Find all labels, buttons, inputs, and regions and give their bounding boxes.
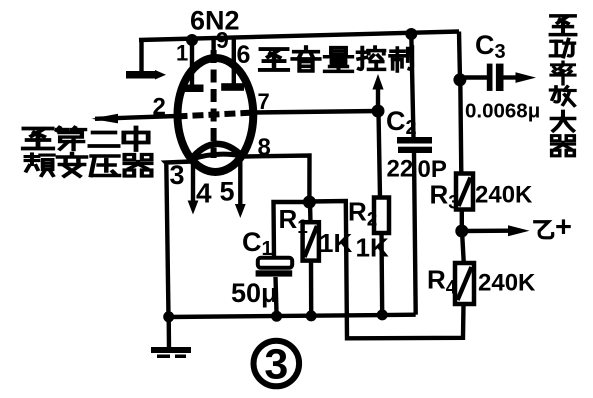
tube plate (right triode) [221,83,244,91]
ground symbol bottom-left [151,347,191,358]
svg-text:0.0068μ: 0.0068μ [465,100,540,123]
wire pin8 horizontal [243,156,310,203]
wire C3 node down to R3 [460,80,461,174]
svg-text:9: 9 [216,27,229,53]
wire bottom rail [169,315,416,317]
svg-text:1K: 1K [319,228,352,258]
wire C2 bottom lead to rail end [414,153,416,315]
wire heater pin4 lead [191,161,195,203]
svg-text:R1: R1 [279,204,309,238]
resistor R4 body [455,263,474,304]
wire C3 branch left lead [460,75,487,79]
wire heater pin5 lead [238,152,242,206]
wire C1 bottom to rail [276,277,277,316]
capacitor C2 plates [397,137,432,153]
wire cathode pin3 run to rail [166,162,191,318]
label: to 2nd IF transformer row2 (pin bian ya qi) [26,154,152,177]
tube shield dashed line pin9 [211,50,217,158]
chassis bar top-left [126,70,166,80]
svg-text:1: 1 [176,41,188,66]
svg-text:50μ: 50μ [231,278,278,308]
wire pin2 to left arrow [95,116,177,119]
svg-text:R4: R4 [427,265,457,299]
svg-text:240K: 240K [475,182,533,209]
svg-text:2: 2 [153,93,166,120]
wire node8 down to R1 [308,202,313,224]
svg-text:8: 8 [258,134,271,161]
wire rail to ground stem [166,317,171,348]
svg-text:5: 5 [220,177,235,207]
wire pin7 to C2 node [253,111,378,113]
wire C3 right lead to arrow [504,75,519,79]
arrowheads [92,72,537,236]
wire B+ arrow line [462,228,510,233]
svg-text:6N2: 6N2 [190,6,240,36]
svg-text:6: 6 [237,41,251,69]
wire node to R4 top [462,231,464,264]
svg-text:C3: C3 [475,30,506,63]
svg-text:3: 3 [264,341,288,389]
wire pin6 plate lead [232,39,236,85]
label: to volume control (zhi yin liang kong zhi) [260,47,412,71]
svg-text:+: + [555,212,572,244]
wire pin9 stub [211,39,215,55]
resistor R2 body [374,198,389,234]
label: B+ (yi) [535,222,553,238]
svg-text:1K: 1K [356,233,389,263]
wire volume-control arrow stem [376,86,380,111]
capacitor C1 plates [256,258,293,277]
svg-text:240K: 240K [478,270,536,297]
wire pin1 plate lead [190,40,194,86]
tube U 6N2 envelope [178,58,254,172]
resistor R1 body [303,222,319,260]
arrow heater pin5 [235,204,246,218]
svg-text:22: 22 [387,156,414,183]
capacitor C3 plates [487,64,504,91]
wire C2 top lead [411,34,413,138]
arrow heater pin4 [188,201,199,215]
arrow B+ (right) [508,225,530,236]
wire R2 bottom to rail [379,233,384,315]
figure number circle 3 [253,341,299,389]
wire node8 right then down to feedback run [309,201,463,338]
label: to 2nd IF transformer row1 (zhi di er zhong) [23,128,148,151]
label: to power amplifier vertical (zhi gong lv fang da qi) [551,16,576,156]
tube plate (left triode) [182,85,204,93]
wire R3 bottom to node [460,210,464,232]
tube heater arch [190,144,243,161]
wire top-right corner down to C3 node [459,32,460,81]
wire R1 bottom to rail [309,259,314,317]
arrow to IF transformer (left) [92,114,119,124]
svg-text:3: 3 [170,160,185,190]
wire left stub to chassis bar [139,39,143,71]
arrow C3 to power amp (right) [516,72,537,83]
tube cathode arc [191,154,243,159]
wire top rail [139,32,459,41]
resistor R3 body [456,174,473,210]
wire node to R2 top [379,111,381,198]
tube grids dashed line pins 2,7 [177,113,255,117]
svg-text:4: 4 [196,178,212,209]
svg-text:C1: C1 [242,227,273,260]
svg-text:7: 7 [258,89,270,114]
wire node8 left to C1 [274,202,310,258]
arrow up to volume control [372,74,383,90]
